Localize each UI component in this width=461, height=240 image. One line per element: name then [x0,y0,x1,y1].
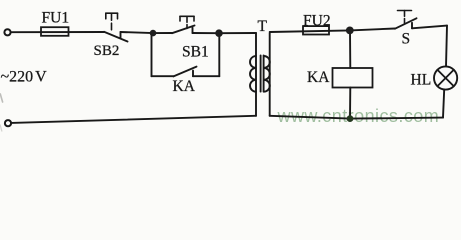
svg-text:FU2: FU2 [303,12,331,29]
lamp HL circle [434,66,457,89]
transformer T secondary lead (right vertical) [269,33,271,116]
svg-text:FU1: FU1 [42,10,70,27]
wire: lamp bottom down to bus [443,90,444,118]
lamp HL cross [437,70,453,86]
terminal top-left [4,29,10,35]
wire: bottom-left terminal to transformer [11,116,256,123]
wire: SB1 to node B [193,32,220,34]
KA contact branch: right vertical to node B [218,33,220,76]
SB2 blade (NC pushbutton) [104,32,128,42]
svg-text:SB1: SB1 [182,44,209,61]
SB2 fixed contact tick [120,32,122,38]
wire: S to top-right corner [412,26,447,29]
wire: node B to transformer primary [219,32,256,34]
SB2 actuator [106,13,118,30]
KA contact branch: left horizontal [152,75,174,77]
svg-text:SB2: SB2 [94,43,120,59]
wire: SB2 to node A [121,32,154,33]
wire: top-left terminal to SB2 [11,31,104,33]
SB1 fixed contact tick [192,28,194,33]
node C junction dot [346,27,354,35]
KA contact blade (NO) [174,67,197,77]
transformer core line 2 [263,55,265,91]
fuse FU2 [303,26,329,34]
transformer T primary winding (3 bumps left) [250,56,256,92]
svg-text:S: S [402,30,411,47]
KA coil bottom lead [349,88,351,119]
wire: secondary top to FU2 [270,30,350,32]
KA coil top lead [349,30,351,68]
svg-text:HL: HL [411,71,432,88]
node D junction dot (KA coil to bus) [347,115,354,122]
transformer core line 1 [260,55,262,91]
svg-text:~220V: ~220V [1,68,48,85]
wire: node C to switch S [350,29,395,31]
transformer T primary lead (left vertical, lead + chord) [255,33,257,116]
svg-text:KA: KA [307,69,330,86]
scan smudge artifacts [0,94,2,102]
switch S actuator [398,11,412,24]
transformer T secondary winding (3 bumps right) [264,56,270,92]
terminal bottom-left [5,120,11,126]
node B junction dot [215,29,223,37]
node A junction dot [150,30,157,37]
relay coil KA [333,68,373,88]
secondary bottom bus [270,116,443,119]
wire: node A to SB1 [153,32,172,34]
svg-text:KA: KA [173,78,196,95]
KA contact branch: right horizontal [193,75,219,77]
fuse FU1 [41,27,69,36]
KA contact fixed tick [192,71,194,77]
switch S blade [395,18,417,28]
KA contact branch: left vertical from node A [151,33,153,76]
SB1 actuator [180,16,194,28]
wire: right corner down to lamp [446,26,447,67]
svg-text:T: T [258,18,268,35]
switch S fixed contact tick [411,23,413,29]
SB1 blade (NO pushbutton) [172,26,195,34]
